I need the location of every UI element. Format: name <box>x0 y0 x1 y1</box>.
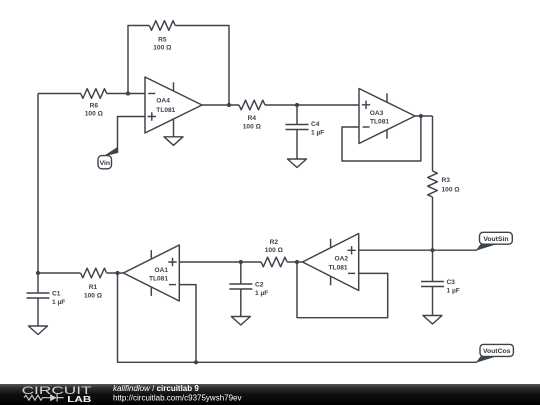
capacitor C3 <box>421 250 460 294</box>
footer bar <box>0 384 540 405</box>
flag Vin <box>98 147 118 169</box>
wire <box>118 273 478 362</box>
svg-text:OA1: OA1 <box>154 267 168 274</box>
wire <box>342 116 421 161</box>
resistor R3 <box>428 171 461 197</box>
svg-text:100 Ω: 100 Ω <box>265 247 284 254</box>
svg-text:100 Ω: 100 Ω <box>243 123 262 130</box>
wire <box>37 94 39 274</box>
svg-text:TL081: TL081 <box>370 118 389 125</box>
wire <box>287 261 297 263</box>
node D <box>419 114 423 118</box>
wire <box>38 93 81 95</box>
wire <box>118 117 146 154</box>
svg-text:R4: R4 <box>248 115 257 122</box>
svg-text:kalifindlow / circuitlab 9: kalifindlow / circuitlab 9 <box>113 384 199 393</box>
svg-text:1 µF: 1 µF <box>311 130 324 137</box>
node B <box>227 103 231 107</box>
svg-text:TL081: TL081 <box>329 264 348 271</box>
capacitor C4 <box>286 105 325 137</box>
svg-text:C2: C2 <box>255 282 264 289</box>
wire <box>265 104 359 106</box>
node G <box>239 260 243 264</box>
ground <box>288 130 307 168</box>
wire <box>432 197 434 250</box>
svg-text:OA3: OA3 <box>370 110 384 117</box>
wire <box>128 26 149 94</box>
CircuitLab logo <box>22 385 92 404</box>
wire <box>107 93 146 95</box>
wire <box>179 261 241 263</box>
footer title <box>113 384 199 393</box>
wire <box>107 272 124 274</box>
footer url <box>113 394 242 403</box>
svg-text:OA4: OA4 <box>156 98 170 105</box>
svg-text:TL081: TL081 <box>149 275 168 282</box>
wire <box>359 249 477 251</box>
svg-text:100 Ω: 100 Ω <box>442 187 461 194</box>
ground <box>29 298 48 335</box>
wire <box>202 104 239 106</box>
svg-text:C4: C4 <box>311 121 320 128</box>
node F <box>295 260 299 264</box>
node I <box>36 271 40 275</box>
svg-text:Vin: Vin <box>100 160 110 167</box>
node J <box>115 271 119 275</box>
svg-text:VoutCos: VoutCos <box>483 348 511 355</box>
svg-text:R6: R6 <box>90 102 99 109</box>
op-amp OA1 <box>124 245 180 301</box>
svg-text:1 µF: 1 µF <box>52 299 65 306</box>
resistor R1 <box>81 268 107 299</box>
node A <box>126 91 130 95</box>
svg-text:C1: C1 <box>52 291 61 298</box>
svg-text:http://circuitlab.com/c9375yws: http://circuitlab.com/c9375ywsh79ev <box>113 394 242 403</box>
node C <box>295 103 299 107</box>
wire <box>175 26 229 106</box>
op-amp OA2 <box>303 234 359 291</box>
node E <box>430 248 434 252</box>
ground <box>423 287 442 325</box>
op-amp OA3 <box>359 89 415 144</box>
resistor R4 <box>239 100 265 130</box>
svg-text:R5: R5 <box>158 36 167 43</box>
svg-text:OA2: OA2 <box>334 256 348 263</box>
wire <box>241 261 261 263</box>
svg-text:R3: R3 <box>442 177 451 184</box>
ground <box>164 119 183 146</box>
svg-text:1 µF: 1 µF <box>447 287 460 294</box>
svg-text:LAB: LAB <box>67 395 91 404</box>
flag VoutCos <box>476 344 514 363</box>
node H <box>194 360 198 364</box>
resistor R5 <box>149 21 175 52</box>
svg-text:100 Ω: 100 Ω <box>85 111 104 118</box>
wire <box>179 285 196 363</box>
wire <box>297 262 388 318</box>
resistor R6 <box>81 89 107 118</box>
svg-text:TL081: TL081 <box>156 107 175 114</box>
wire <box>297 261 303 263</box>
flag VoutSin <box>476 232 513 250</box>
ground <box>231 289 250 325</box>
svg-text:C3: C3 <box>447 279 456 286</box>
wire <box>38 272 81 274</box>
wire <box>432 116 434 171</box>
op-amp OA4 <box>145 77 202 133</box>
svg-text:100 Ω: 100 Ω <box>153 45 172 52</box>
wire <box>415 115 433 117</box>
svg-text:VoutSin: VoutSin <box>483 236 508 243</box>
capacitor C2 <box>229 262 268 297</box>
svg-text:R1: R1 <box>89 284 98 291</box>
resistor R2 <box>261 239 287 267</box>
svg-text:R2: R2 <box>270 239 279 246</box>
svg-text:100 Ω: 100 Ω <box>84 293 103 300</box>
capacitor C1 <box>27 273 66 306</box>
svg-text:1 µF: 1 µF <box>255 290 268 297</box>
